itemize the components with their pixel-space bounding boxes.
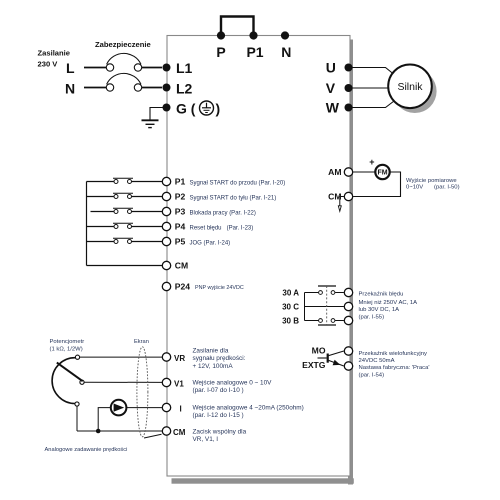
potentiometer top terminal bbox=[75, 355, 79, 359]
svg-text:30 C: 30 C bbox=[282, 303, 299, 312]
svg-text:Zacisk wspólny dla: Zacisk wspólny dla bbox=[193, 429, 247, 436]
inverter enclosure box bbox=[167, 36, 350, 477]
terminal P1 (input) bbox=[162, 177, 170, 185]
svg-text:Sygnał START do tyłu (Par. I-2: Sygnał START do tyłu (Par. I-21) bbox=[190, 195, 277, 201]
svg-text:(Par. I-23): (Par. I-23) bbox=[227, 225, 254, 231]
wire N to fuse F2 bbox=[84, 87, 106, 89]
svg-text:+: + bbox=[369, 157, 374, 167]
svg-text:Blokada pracy (Par. I-22): Blokada pracy (Par. I-22) bbox=[190, 210, 256, 216]
terminal L1 bbox=[163, 64, 171, 72]
wire W to motor bbox=[353, 100, 397, 108]
inverter enclosure shadow bottom bbox=[172, 478, 354, 483]
current source B1 bbox=[111, 400, 127, 416]
terminal P1 bbox=[249, 31, 257, 39]
terminal N (DC bus) bbox=[281, 31, 289, 39]
cable shield (Ekran) ellipse bbox=[137, 347, 148, 437]
svg-text:230 V: 230 V bbox=[38, 60, 59, 69]
potentiometer bottom terminal bbox=[75, 402, 79, 406]
svg-text:Wejście analogowe 4 ~20mA (250: Wejście analogowe 4 ~20mA (250ohm) bbox=[193, 405, 304, 412]
terminal P bbox=[217, 31, 225, 39]
svg-text:30 A: 30 A bbox=[282, 289, 299, 298]
switch S5 (P5) bbox=[87, 241, 114, 243]
shield drain wire to CM bbox=[144, 434, 162, 438]
svg-text:lub 30V DC, 1A: lub 30V DC, 1A bbox=[359, 307, 400, 313]
terminal VR bbox=[162, 353, 170, 361]
terminal P5 bbox=[162, 237, 170, 245]
svg-text:V1: V1 bbox=[174, 379, 184, 388]
svg-text:Wyjście pomiarowe: Wyjście pomiarowe bbox=[406, 178, 457, 184]
svg-text:30 B: 30 B bbox=[282, 317, 299, 326]
svg-text:N: N bbox=[65, 81, 75, 97]
switch S2 (P2) bbox=[87, 196, 114, 198]
svg-text:Ekran: Ekran bbox=[134, 339, 149, 345]
transistor Q1 (open collector MO) bbox=[327, 354, 329, 363]
terminal CM (analog) bbox=[162, 427, 170, 435]
terminal MO bbox=[344, 347, 352, 355]
relay mechanical link (dashed) bbox=[326, 286, 328, 325]
terminal EXTG bbox=[344, 362, 352, 370]
svg-text:(par. I-12 do I-15 ): (par. I-12 do I-15 ) bbox=[193, 412, 244, 419]
svg-text:W: W bbox=[326, 100, 340, 116]
wire CM analog common bbox=[77, 430, 162, 432]
wire bus to CM bbox=[87, 265, 163, 267]
svg-text:CM: CM bbox=[175, 260, 188, 270]
svg-text:+ 12V, 100mA: + 12V, 100mA bbox=[193, 363, 234, 370]
svg-text:sygnału prędkości:: sygnału prędkości: bbox=[193, 355, 246, 362]
wire fuse F2 to L2 bbox=[142, 87, 162, 89]
svg-text:Potencjometr: Potencjometr bbox=[50, 339, 85, 345]
wire wiper to V1 bbox=[84, 381, 162, 383]
svg-text:Nastawa fabryczna: 'Praca': Nastawa fabryczna: 'Praca' bbox=[359, 365, 430, 371]
relay contact 30A (NC) bbox=[305, 292, 319, 294]
switch S1 (P1) bbox=[87, 181, 114, 183]
svg-text:Analogowe zadawanie prędkości: Analogowe zadawanie prędkości bbox=[45, 447, 128, 453]
terminal P4 bbox=[162, 222, 170, 230]
potentiometer RV1 body arc bbox=[52, 358, 75, 404]
svg-text:(par. I-55): (par. I-55) bbox=[359, 314, 385, 320]
terminal V1 bbox=[162, 378, 170, 386]
terminal U bbox=[345, 64, 353, 72]
svg-text:VR: VR bbox=[174, 354, 185, 363]
terminal CM (meter return) bbox=[344, 192, 352, 200]
svg-text:Zasilanie dla: Zasilanie dla bbox=[193, 348, 229, 355]
svg-text:Zabezpieczenie: Zabezpieczenie bbox=[95, 40, 151, 49]
svg-text:Reset błędu: Reset błędu bbox=[190, 225, 222, 231]
fuse F1 (breaker, line L) bbox=[106, 64, 113, 71]
motor M1 shadow bbox=[393, 69, 437, 113]
svg-text:Sygnał START do przodu (Par. I: Sygnał START do przodu (Par. I-20) bbox=[190, 180, 286, 186]
terminal P24 bbox=[162, 282, 170, 290]
svg-text:L2: L2 bbox=[176, 81, 193, 97]
terminal CM (digital common) bbox=[162, 261, 170, 269]
stub arrow below CM bbox=[340, 197, 344, 206]
svg-text:0~10V: 0~10V bbox=[406, 185, 423, 191]
svg-text:P5: P5 bbox=[175, 236, 186, 246]
terminal 30A bbox=[344, 288, 352, 296]
terminal G bbox=[163, 104, 171, 112]
svg-text:L1: L1 bbox=[176, 60, 193, 76]
svg-text:U: U bbox=[326, 60, 336, 76]
svg-text:P24: P24 bbox=[175, 281, 191, 291]
svg-text:(par. I-54): (par. I-54) bbox=[359, 372, 385, 378]
terminal V bbox=[345, 84, 353, 92]
svg-text:(par. I-50): (par. I-50) bbox=[434, 185, 460, 191]
wire current source to I bbox=[127, 407, 162, 409]
terminal I bbox=[162, 403, 170, 411]
relay left bus bbox=[304, 293, 306, 321]
wire L to fuse F1 bbox=[84, 67, 106, 69]
svg-text:Zasilanie: Zasilanie bbox=[38, 49, 71, 58]
svg-text:JOG (Par. I-24): JOG (Par. I-24) bbox=[190, 240, 231, 246]
svg-text:P4: P4 bbox=[175, 221, 186, 231]
terminal P3 bbox=[162, 207, 170, 215]
potentiometer wiper arm bbox=[57, 363, 83, 382]
svg-text:24VDC 50mA: 24VDC 50mA bbox=[359, 358, 395, 364]
junction node bbox=[96, 429, 101, 434]
terminal AM bbox=[344, 168, 352, 176]
svg-text:P3: P3 bbox=[175, 206, 186, 216]
wire G to earth bbox=[150, 108, 164, 120]
svg-text:G (: G ( bbox=[176, 101, 196, 117]
wire current source left leg bbox=[98, 408, 110, 431]
svg-text:Mniej niż 250V AC, 1A: Mniej niż 250V AC, 1A bbox=[359, 300, 418, 306]
wire fuse F1 to L1 bbox=[142, 67, 162, 69]
wire AM to FM bbox=[353, 171, 375, 173]
meter FM bbox=[375, 165, 389, 179]
svg-text:Wejście analogowe 0 ~ 10V: Wejście analogowe 0 ~ 10V bbox=[193, 380, 273, 387]
svg-text:N: N bbox=[281, 44, 291, 60]
svg-text:Silnik: Silnik bbox=[397, 81, 423, 93]
svg-text:P2: P2 bbox=[175, 191, 186, 201]
svg-text:VR, V1, I: VR, V1, I bbox=[193, 436, 219, 443]
wire V to motor bbox=[353, 87, 388, 89]
PE symbol in parentheses bbox=[200, 101, 214, 115]
ground bbox=[142, 119, 159, 121]
terminal 30B bbox=[344, 316, 352, 324]
relay contact 30B (NO) bbox=[305, 320, 319, 322]
wire pot top to VR bbox=[80, 356, 162, 358]
svg-text:AM: AM bbox=[328, 167, 341, 177]
svg-text:P1: P1 bbox=[175, 176, 186, 186]
svg-text:CM: CM bbox=[173, 428, 186, 437]
terminal P2 bbox=[162, 192, 170, 200]
jumper P-P1 bbox=[221, 17, 254, 36]
inverter enclosure shadow right bbox=[348, 40, 353, 485]
svg-text:FM: FM bbox=[377, 169, 387, 176]
wire U to motor bbox=[353, 68, 397, 77]
switch S3 (P3) bbox=[91, 211, 114, 213]
svg-text:V: V bbox=[326, 80, 336, 96]
svg-text:MO: MO bbox=[312, 346, 326, 356]
wire 30C bbox=[305, 306, 344, 308]
svg-text:(1 kΩ, 1/2W): (1 kΩ, 1/2W) bbox=[50, 347, 83, 353]
wire FM to CM bbox=[353, 172, 400, 197]
wire pot bottom down to CM line bbox=[76, 406, 78, 431]
digital input common bus bbox=[86, 182, 88, 266]
svg-text:P: P bbox=[216, 44, 225, 60]
terminal 30C bbox=[344, 302, 352, 310]
switch S4 (P4) bbox=[87, 226, 114, 228]
svg-text:P1: P1 bbox=[246, 44, 263, 60]
svg-text:I: I bbox=[180, 404, 182, 413]
fuse F2 (breaker, line N) bbox=[106, 84, 113, 91]
svg-text:PNP wyjście 24VDC: PNP wyjście 24VDC bbox=[195, 285, 244, 291]
svg-text:Przekaźnik błędu: Przekaźnik błędu bbox=[359, 292, 404, 298]
terminal L2 bbox=[163, 84, 171, 92]
svg-text:): ) bbox=[216, 101, 221, 117]
potentiometer wiper terminal bbox=[80, 380, 84, 384]
svg-text:(par. I-07 do I-10 ): (par. I-07 do I-10 ) bbox=[193, 387, 244, 394]
motor M1 (Silnik) bbox=[388, 65, 432, 109]
terminal W bbox=[345, 104, 353, 112]
svg-text:EXTG: EXTG bbox=[302, 360, 326, 370]
svg-text:L: L bbox=[66, 60, 75, 76]
svg-text:Przekaźnik wielofunkcyjny: Przekaźnik wielofunkcyjny bbox=[359, 351, 427, 357]
